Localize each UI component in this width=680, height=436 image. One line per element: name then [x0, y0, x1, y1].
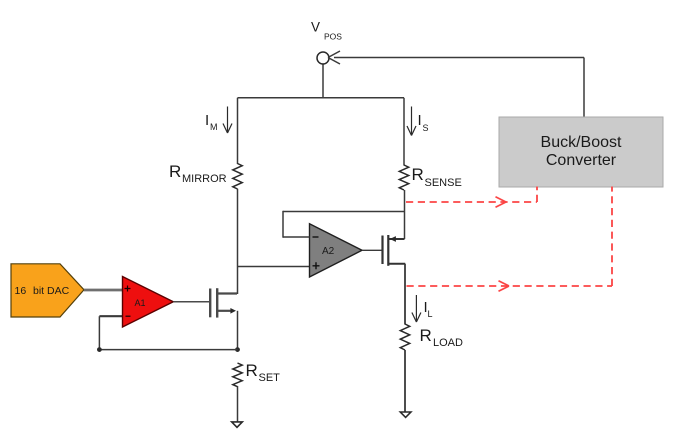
- svg-text:A2: A2: [322, 246, 335, 257]
- wire feedback junction to A1 inverting input: [99, 316, 237, 349]
- wire Q1 source down to junction: [237, 311, 239, 350]
- svg-text:LOAD: LOAD: [433, 337, 463, 349]
- svg-text:R: R: [420, 326, 432, 345]
- node V_POS terminal: [317, 52, 329, 64]
- current arrow I_M: [223, 107, 232, 134]
- dashed feedback path from sense node to Buck/Boost: [406, 187, 537, 203]
- resistor R_LOAD: [400, 324, 409, 350]
- op-amp A2: [310, 224, 363, 277]
- resistor R_MIRROR: [233, 164, 242, 190]
- wire V_POS stem: [322, 65, 324, 99]
- dashed arrow head A: [496, 197, 507, 207]
- resistor R_SENSE: [399, 165, 408, 190]
- ground right: [400, 412, 411, 417]
- svg-text:Converter: Converter: [546, 152, 617, 169]
- wire Q2 source down to R_LOAD: [404, 264, 406, 325]
- dashed feedback path from load node to Buck/Boost: [407, 187, 613, 287]
- wire left branch lower: [237, 189, 239, 294]
- svg-text:S: S: [423, 123, 429, 133]
- Buck/Boost Converter block: [499, 117, 663, 187]
- svg-text:V: V: [311, 20, 320, 35]
- svg-text:I: I: [418, 112, 422, 129]
- dashed arrow head B: [499, 281, 510, 291]
- wire A1 output to Q1 gate: [173, 301, 210, 303]
- wire top rail: [238, 97, 405, 99]
- wire A2 feedback loop to sense node: [283, 211, 404, 238]
- wire R_SET to ground: [237, 386, 239, 422]
- wire R_LOAD to ground: [404, 350, 406, 412]
- svg-text:Buck/Boost: Buck/Boost: [541, 134, 622, 151]
- svg-text:L: L: [428, 309, 433, 319]
- svg-text:R: R: [169, 162, 181, 181]
- svg-text:R: R: [246, 361, 258, 380]
- wire to A2 noninverting input: [238, 266, 310, 268]
- ground left: [232, 422, 243, 427]
- svg-text:R: R: [412, 165, 424, 184]
- svg-text:SENSE: SENSE: [425, 177, 462, 189]
- svg-text:MIRROR: MIRROR: [182, 173, 227, 185]
- wire left branch upper: [237, 98, 239, 164]
- junction dot feedback: [97, 347, 102, 352]
- svg-text:A1: A1: [135, 298, 146, 308]
- op-amp A1: [123, 277, 174, 328]
- 16 bit DAC block: [11, 264, 84, 317]
- wire from Buck/Boost to V_POS with arrowhead: [328, 51, 584, 117]
- svg-text:POS: POS: [324, 32, 342, 42]
- wire A2 output to Q2 gate: [362, 249, 382, 251]
- wire Q2 drain up to sense node: [404, 190, 406, 239]
- svg-text:SET: SET: [259, 372, 281, 384]
- wire DAC to A1 noninverting input: [84, 289, 123, 292]
- svg-text:bit DAC: bit DAC: [33, 285, 70, 297]
- svg-text:I: I: [205, 112, 209, 129]
- transistor Q1: [210, 288, 237, 317]
- svg-text:16: 16: [15, 285, 27, 297]
- svg-text:M: M: [210, 122, 218, 132]
- current arrow I_L: [412, 295, 421, 322]
- resistor R_SET: [233, 363, 242, 387]
- transistor Q2: [383, 235, 406, 266]
- current arrow I_S: [407, 107, 416, 136]
- wire right branch upper: [403, 98, 405, 166]
- junction node at R_SET top: [235, 347, 240, 352]
